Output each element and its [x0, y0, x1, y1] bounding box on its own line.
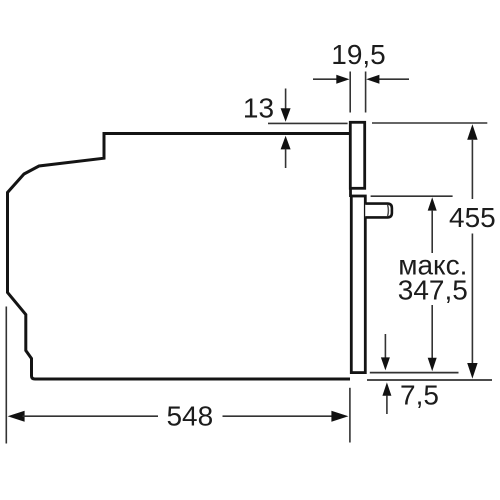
dim 455 lower stem — [471, 234, 473, 365]
svg-text:13: 13 — [243, 93, 274, 124]
handle end shading — [387, 205, 390, 216]
dim 548 right extension line — [349, 388, 351, 443]
oven body outline — [8, 134, 352, 380]
dim 347,5 top arrow — [428, 197, 437, 210]
dim 347,5 lower stem — [431, 305, 433, 358]
dim 347,5 bottom arrow — [428, 358, 437, 371]
dim 548 left extension line — [5, 307, 7, 444]
dim 455 top arrow — [467, 124, 477, 140]
oven door panel — [351, 196, 365, 373]
door bottom reference line — [370, 372, 459, 374]
dim 347,5 top reference line — [371, 195, 453, 197]
dim 13 upper arrow — [285, 89, 287, 109]
dim 548 right arrow + leader — [223, 415, 335, 417]
frame-to-door left edge connector — [349, 187, 352, 197]
svg-text:347,5: 347,5 — [398, 275, 468, 306]
dim 455 top reference line — [372, 122, 487, 124]
svg-text:548: 548 — [166, 400, 213, 431]
dim 455 bottom arrow — [467, 363, 477, 379]
front frame (top panel) — [350, 122, 364, 188]
dim 548 left arrow + leader — [8, 411, 25, 422]
door handle — [365, 204, 392, 218]
svg-text:455: 455 — [449, 202, 496, 233]
dim 19,5 extension line left — [349, 72, 351, 113]
body bottom reference line — [367, 379, 492, 381]
dim 7,5 upper arrow — [384, 334, 386, 359]
svg-text:7,5: 7,5 — [400, 379, 439, 410]
dim 13 lower arrow — [281, 136, 291, 150]
dim 19,5 right leader + arrow — [379, 78, 409, 80]
dim 7,5 lower arrow — [382, 382, 391, 395]
dim 13 reference line — [268, 122, 348, 124]
svg-text:19,5: 19,5 — [331, 39, 386, 70]
dim 19,5 left leader + arrow — [313, 78, 337, 80]
dim 19,5 extension line right — [365, 72, 367, 113]
